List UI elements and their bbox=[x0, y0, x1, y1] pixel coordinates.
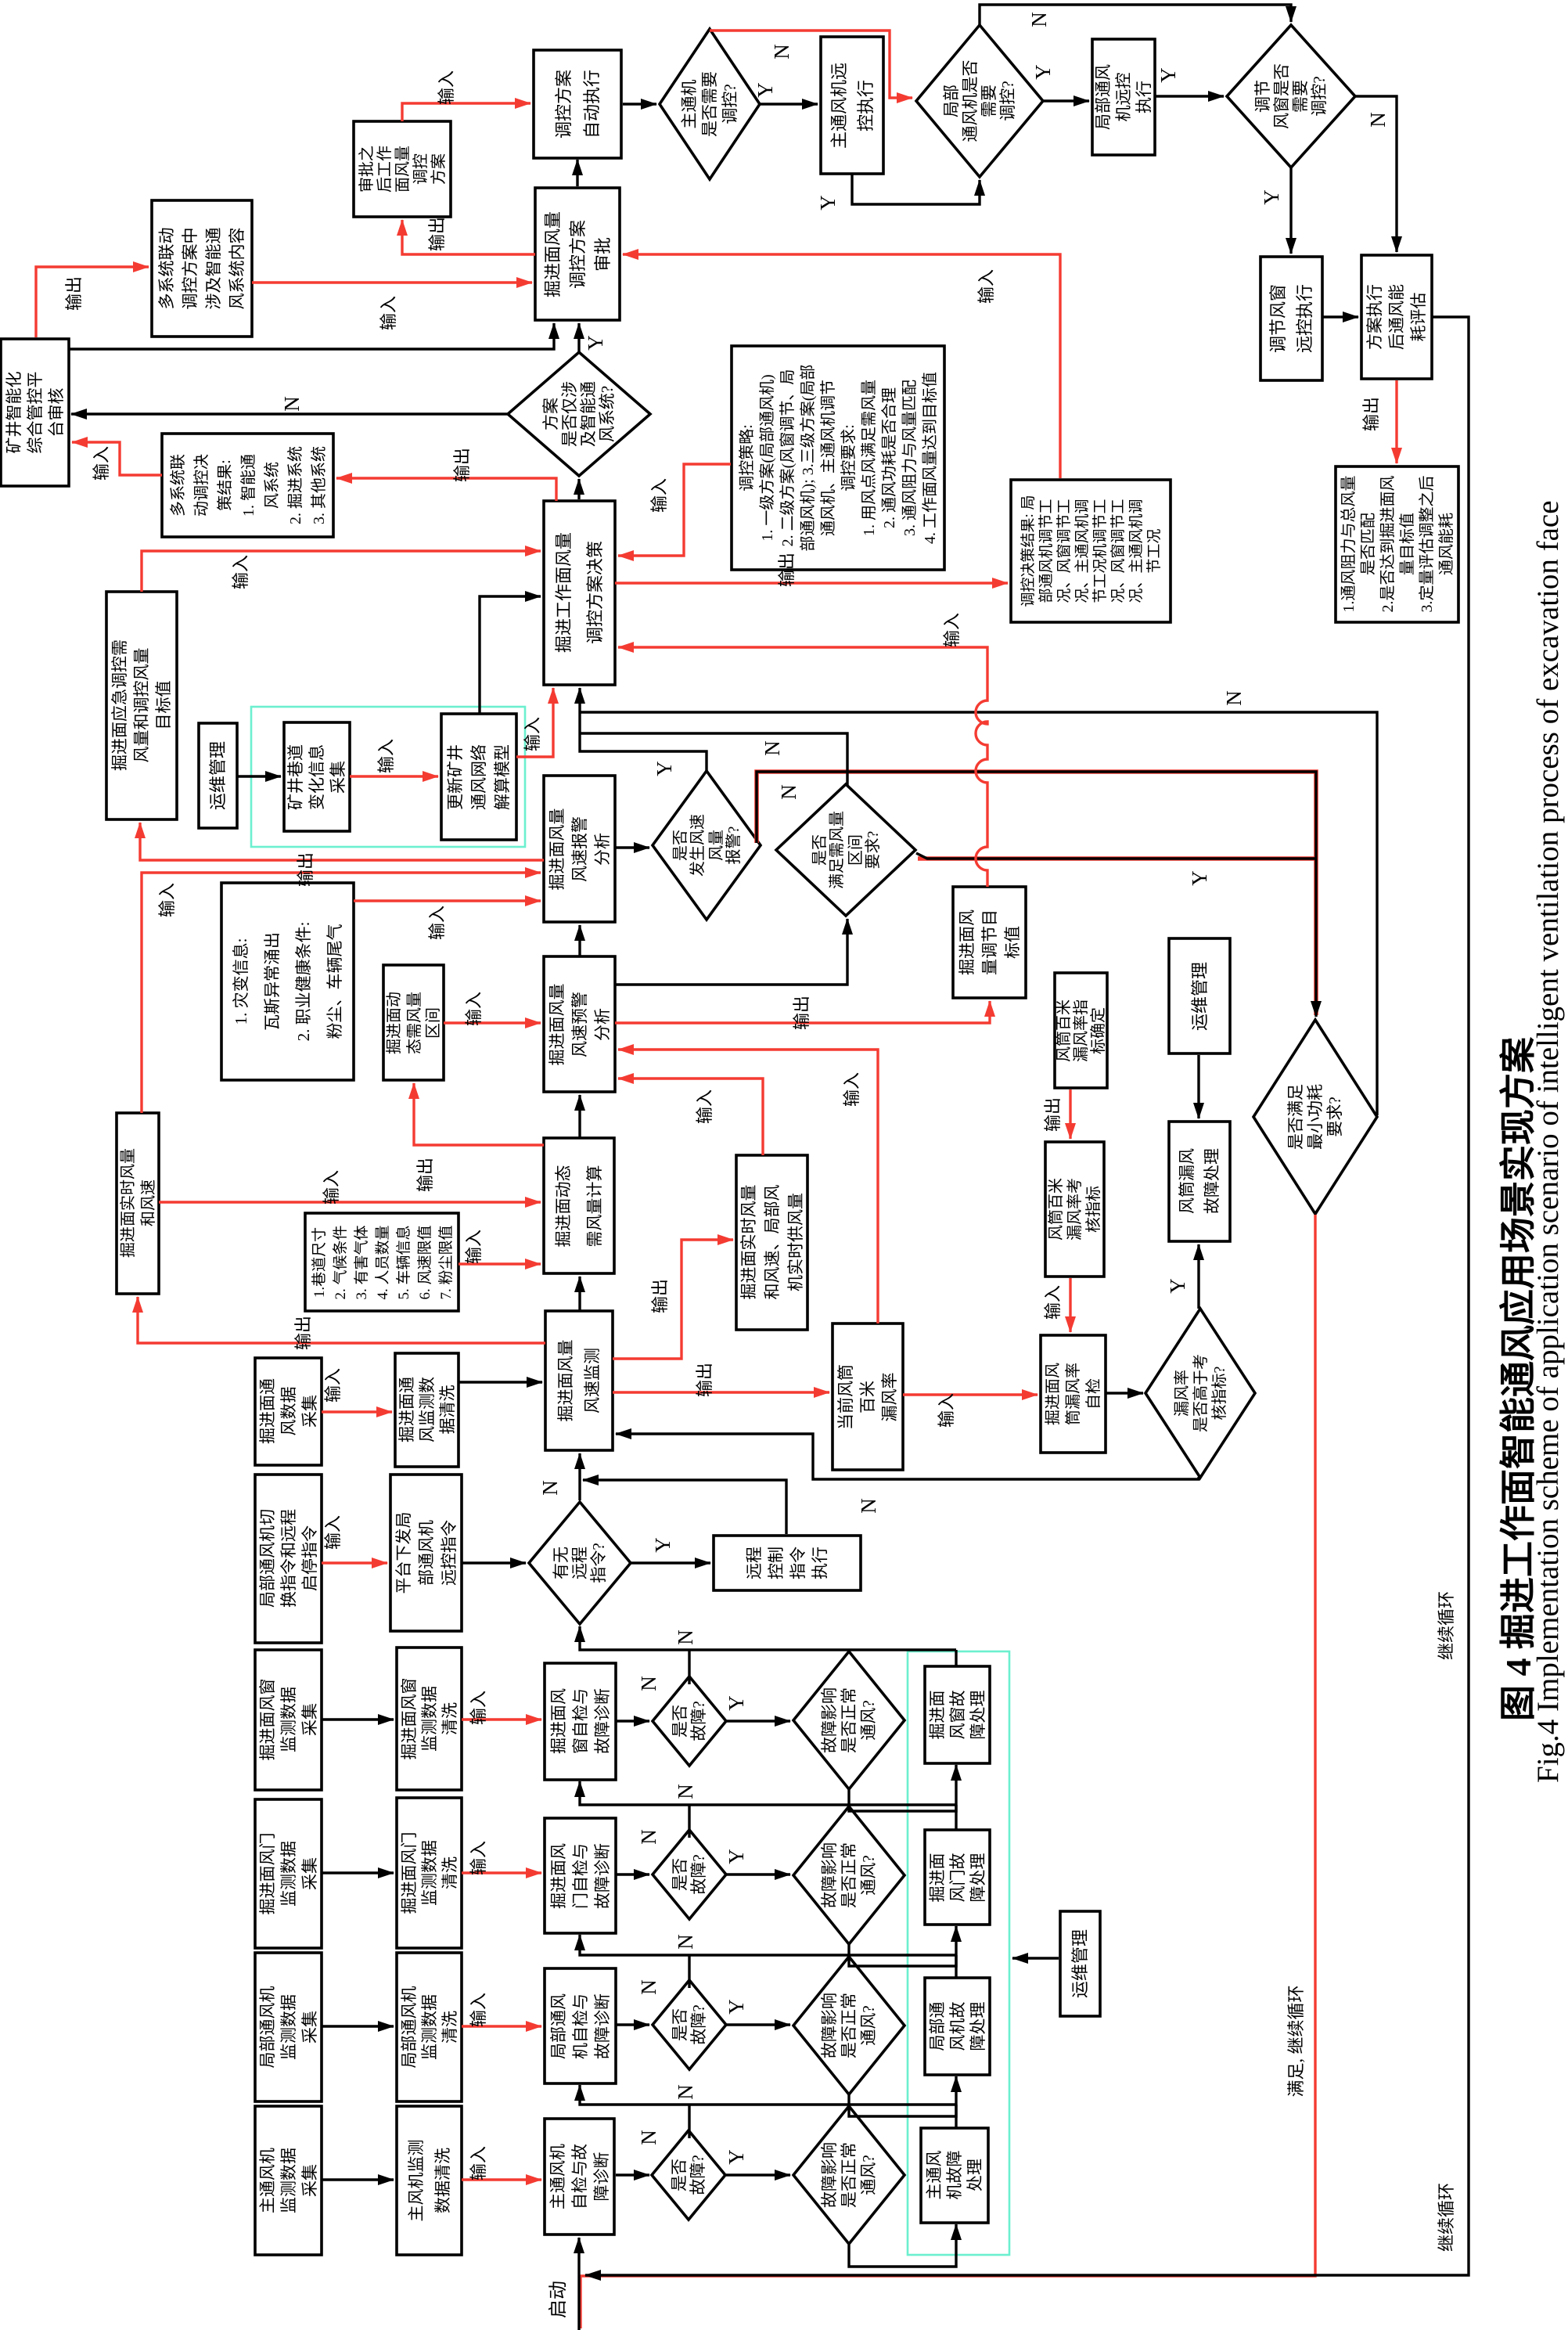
svg-text:解算模型: 解算模型 bbox=[493, 744, 512, 810]
svg-text:4. 工作面风量达到目标值: 4. 工作面风量达到目标值 bbox=[921, 372, 939, 544]
svg-text:掘进面通: 掘进面通 bbox=[397, 1377, 416, 1442]
svg-text:2. 通风功耗是否合理: 2. 通风功耗是否合理 bbox=[880, 387, 898, 528]
svg-text:运维管理: 运维管理 bbox=[1190, 962, 1210, 1031]
svg-text:况、风窗调节工: 况、风窗调节工 bbox=[1056, 499, 1073, 603]
wire 解算模型到决策底 bbox=[516, 688, 553, 757]
svg-text:掘进面动态: 掘进面动态 bbox=[554, 1165, 573, 1248]
svg-text:采集: 采集 bbox=[300, 2011, 319, 2044]
svg-text:调控方案: 调控方案 bbox=[568, 220, 588, 289]
svg-text:6. 风速限值: 6. 风速限值 bbox=[416, 1225, 433, 1299]
svg-text:输入: 输入 bbox=[469, 1691, 488, 1725]
svg-text:是否: 是否 bbox=[671, 1705, 689, 1738]
svg-text:Y: Y bbox=[1260, 189, 1283, 205]
svg-text:量目标值: 量目标值 bbox=[1398, 513, 1416, 575]
svg-text:Y: Y bbox=[1166, 1278, 1189, 1294]
svg-text:风窗是否: 风窗是否 bbox=[1272, 63, 1291, 129]
svg-text:N: N bbox=[637, 1979, 660, 1995]
wire 考核指标到自检 bbox=[1069, 1278, 1071, 1332]
svg-text:N: N bbox=[857, 1498, 880, 1514]
svg-text:输出: 输出 bbox=[296, 852, 315, 887]
decision 局部通风机是否需要调控 bbox=[916, 25, 1043, 177]
svg-text:通风能耗: 通风能耗 bbox=[1437, 513, 1455, 575]
box 局部通风机切换指令和远程启停指令 bbox=[255, 1475, 322, 1643]
box 局部通风机监测数据采集 bbox=[255, 1953, 322, 2101]
box 掘进面通风监测数据清洗 bbox=[395, 1353, 459, 1467]
svg-text:机自检与: 机自检与 bbox=[571, 1993, 590, 2059]
svg-text:控执行: 控执行 bbox=[856, 80, 876, 131]
box 风筒百米漏风率考核指标 bbox=[1045, 1142, 1104, 1277]
box 运维管理bottom bbox=[1060, 1911, 1100, 2016]
box 掘进面风窗监测数据采集 bbox=[255, 1650, 322, 1790]
svg-text:通风?: 通风? bbox=[859, 2005, 878, 2045]
svg-text:通风网络: 通风网络 bbox=[469, 744, 488, 810]
wire 处理输出上行3 bbox=[955, 1955, 957, 1978]
svg-text:Y: Y bbox=[584, 335, 607, 351]
wire 调节目标值到决策 bbox=[618, 647, 987, 887]
wire 决策到多系统决策结果 bbox=[336, 478, 556, 501]
svg-text:远控指令: 远控指令 bbox=[440, 1520, 459, 1586]
svg-text:自检与故: 自检与故 bbox=[570, 2144, 589, 2209]
wire 处理输出上行2 bbox=[955, 1805, 957, 1830]
wire 巷道采集到解算模型 bbox=[350, 775, 438, 777]
box 掘进面风量风速报警分析 bbox=[544, 776, 615, 922]
svg-text:通风?: 通风? bbox=[859, 1700, 878, 1740]
svg-text:筒漏风率: 筒漏风率 bbox=[1064, 1363, 1082, 1425]
svg-text:是否仅涉: 是否仅涉 bbox=[560, 381, 579, 447]
svg-text:是否: 是否 bbox=[811, 834, 829, 866]
svg-text:采集: 采集 bbox=[300, 2164, 319, 2197]
svg-text:机故障: 机故障 bbox=[945, 2151, 964, 2200]
svg-text:局部通风机: 局部通风机 bbox=[400, 1986, 419, 2069]
svg-text:审批之: 审批之 bbox=[358, 146, 376, 193]
box 局部通风机自检与故障诊断 bbox=[545, 1968, 616, 2083]
svg-text:多系统联: 多系统联 bbox=[169, 454, 187, 517]
wire 局部远控执行到风窗诊断 bbox=[1155, 95, 1224, 97]
svg-text:报警?: 报警? bbox=[725, 826, 743, 864]
box 审批之后工作面风量调控方案 bbox=[354, 121, 451, 217]
svg-text:输入: 输入 bbox=[523, 717, 542, 751]
svg-text:Y: Y bbox=[725, 1695, 748, 1711]
box 平台下发局部通风机远控指令 bbox=[390, 1475, 462, 1631]
svg-text:监测数据: 监测数据 bbox=[420, 1686, 439, 1752]
svg-text:风速报警: 风速报警 bbox=[570, 816, 589, 882]
svg-text:是否: 是否 bbox=[672, 830, 689, 861]
wire 局部诊断N绕顶到风窗诊断 bbox=[980, 5, 1291, 25]
svg-text:N: N bbox=[637, 1676, 660, 1691]
wire 影响N上行2 bbox=[847, 1805, 850, 1806]
svg-text:是否正常: 是否正常 bbox=[840, 2142, 858, 2208]
svg-text:输入: 输入 bbox=[92, 446, 111, 481]
svg-text:局部通: 局部通 bbox=[928, 2002, 947, 2051]
wire 清洗到自检2 bbox=[462, 1871, 541, 1874]
svg-text:变化信息: 变化信息 bbox=[307, 744, 326, 810]
wire 风量风速监测到动态计算 bbox=[578, 1277, 581, 1311]
svg-text:掘进面风量: 掘进面风量 bbox=[548, 984, 566, 1066]
svg-text:输入: 输入 bbox=[322, 1170, 341, 1205]
svg-text:机远控: 机远控 bbox=[1114, 73, 1133, 122]
wire 主通机Y到主通风机远控执行 bbox=[760, 103, 818, 105]
wire 监测到实时风量 bbox=[138, 1297, 545, 1343]
svg-text:漏风率指: 漏风率指 bbox=[1072, 999, 1090, 1062]
svg-text:Y: Y bbox=[653, 761, 676, 776]
wire 调控策略到决策 bbox=[618, 464, 731, 556]
svg-text:继续循环: 继续循环 bbox=[1437, 2183, 1456, 2252]
svg-text:区间: 区间 bbox=[424, 1007, 442, 1039]
decision 故障影响是否正常通风4 bbox=[793, 2106, 904, 2244]
wire 影响Y到处理2 bbox=[849, 1926, 956, 1966]
svg-text:调控方案: 调控方案 bbox=[554, 70, 574, 139]
svg-text:输出: 输出 bbox=[293, 1316, 313, 1350]
svg-text:2. 二级方案(风窗调节、局: 2. 二级方案(风窗调节、局 bbox=[779, 369, 797, 547]
svg-text:输出: 输出 bbox=[695, 1363, 714, 1397]
svg-text:输入: 输入 bbox=[437, 70, 456, 105]
svg-text:核指标?: 核指标? bbox=[1210, 1366, 1228, 1420]
svg-text:N: N bbox=[280, 396, 304, 412]
svg-text:输出: 输出 bbox=[427, 217, 447, 251]
decision 漏风率是否高于考核指标 bbox=[1145, 1309, 1255, 1478]
svg-text:有无: 有无 bbox=[552, 1547, 570, 1579]
wire 是否故障N上行1 bbox=[688, 1650, 690, 1684]
svg-text:N: N bbox=[674, 1784, 697, 1799]
svg-text:节工况机调节工: 节工况机调节工 bbox=[1091, 499, 1109, 603]
svg-text:满足需风量: 满足需风量 bbox=[828, 811, 846, 889]
wire 清洗到自检3 bbox=[462, 2025, 541, 2027]
svg-text:输入: 输入 bbox=[842, 1072, 861, 1107]
svg-text:和风速、局部风: 和风速、局部风 bbox=[763, 1185, 782, 1300]
svg-text:运维管理: 运维管理 bbox=[208, 741, 228, 810]
svg-text:掘进面实时风量: 掘进面实时风量 bbox=[119, 1148, 137, 1258]
wire 清洗到自检1 bbox=[462, 1718, 541, 1720]
svg-text:输入: 输入 bbox=[937, 1393, 956, 1428]
svg-text:N: N bbox=[770, 44, 793, 59]
svg-text:Y: Y bbox=[1188, 870, 1211, 886]
wire 区间Y红色伴线 bbox=[918, 856, 1316, 861]
svg-text:态需风量: 态需风量 bbox=[405, 992, 423, 1054]
wire 是否故障N上行2 bbox=[688, 1805, 690, 1838]
svg-text:风系统内容: 风系统内容 bbox=[228, 228, 246, 310]
svg-text:N: N bbox=[674, 2084, 697, 2100]
wire 是否故障Y到影响1 bbox=[726, 1720, 790, 1722]
wire 主通机N到局部诊断 bbox=[710, 31, 912, 98]
svg-text:调节风窗: 调节风窗 bbox=[1268, 284, 1288, 353]
svg-text:输出: 输出 bbox=[792, 996, 811, 1030]
wire 是否故障Y到影响2 bbox=[726, 1873, 790, 1875]
svg-text:监测数据: 监测数据 bbox=[279, 1841, 298, 1907]
svg-text:部通风机); 3.三级方案(局部: 部通风机); 3.三级方案(局部 bbox=[799, 365, 817, 552]
svg-text:风窗故: 风窗故 bbox=[948, 1691, 967, 1740]
wire 影响Y到处理3 bbox=[849, 2076, 956, 2116]
svg-text:监测数据: 监测数据 bbox=[279, 1687, 298, 1752]
svg-text:部通风机: 部通风机 bbox=[417, 1520, 436, 1586]
svg-text:采集: 采集 bbox=[300, 1703, 319, 1736]
svg-text:采集: 采集 bbox=[300, 1395, 319, 1428]
svg-text:故障诊断: 故障诊断 bbox=[593, 1843, 612, 1909]
decision 是否满足需风量区间要求 bbox=[776, 784, 915, 916]
svg-text:障处理: 障处理 bbox=[969, 1691, 987, 1740]
wire 方案诊断Y到审批 bbox=[577, 323, 580, 352]
svg-text:输入: 输入 bbox=[323, 1368, 343, 1403]
decision 故障影响是否正常通风3 bbox=[793, 1957, 904, 2094]
decision 是否发生风速风量报警 bbox=[653, 771, 761, 920]
svg-text:通风?: 通风? bbox=[859, 2155, 878, 2195]
svg-text:输入: 输入 bbox=[379, 296, 398, 330]
svg-text:清洗: 清洗 bbox=[441, 1702, 459, 1735]
box 方案执行后通风能耗评估 bbox=[1361, 255, 1432, 379]
svg-text:继续循环: 继续循环 bbox=[1437, 1591, 1456, 1660]
svg-text:Y: Y bbox=[725, 1999, 748, 2015]
svg-text:面风量: 面风量 bbox=[394, 146, 412, 193]
wire 功耗N回决策 bbox=[580, 712, 1377, 1115]
svg-text:主通机: 主通机 bbox=[680, 80, 699, 129]
svg-text:漏风率考: 漏风率考 bbox=[1066, 1178, 1084, 1241]
svg-text:门自检与: 门自检与 bbox=[571, 1843, 590, 1909]
svg-text:1. 灾变信息:: 1. 灾变信息: bbox=[232, 938, 250, 1025]
svg-text:调控方案中: 调控方案中 bbox=[181, 228, 200, 310]
svg-text:故障?: 故障? bbox=[689, 2155, 707, 2195]
svg-text:方案: 方案 bbox=[541, 398, 560, 430]
svg-text:输入: 输入 bbox=[231, 555, 250, 589]
svg-text:主通风机: 主通风机 bbox=[258, 2148, 277, 2213]
svg-text:审批: 审批 bbox=[593, 237, 613, 272]
svg-text:风筒百米: 风筒百米 bbox=[1047, 1178, 1065, 1241]
svg-text:输出: 输出 bbox=[452, 448, 472, 482]
svg-text:Fig.4 Implementation scheme: Fig.4 Implementation scheme of applicati… bbox=[1531, 500, 1565, 1783]
svg-text:N: N bbox=[1027, 12, 1051, 27]
svg-text:当前风筒: 当前风筒 bbox=[836, 1364, 855, 1430]
svg-text:2. 气候条件: 2. 气候条件 bbox=[332, 1225, 349, 1299]
svg-text:1.通风阻力与总风量: 1.通风阻力与总风量 bbox=[1340, 476, 1358, 613]
wire 区间N汇入决策竖线 bbox=[580, 733, 847, 786]
box 主风机监测数据清洗 bbox=[397, 2106, 462, 2255]
decision 是否故障3 bbox=[653, 1980, 726, 2069]
svg-text:况、风窗调节工: 况、风窗调节工 bbox=[1109, 499, 1127, 603]
wire 预警分析到报警分析 bbox=[578, 925, 581, 956]
wire 漏风率自检到诊断 bbox=[1106, 1392, 1143, 1394]
box 局部通风机远控执行 bbox=[1092, 39, 1155, 155]
wire 巷道尺寸到动态计算 bbox=[459, 1262, 541, 1265]
wire 自动执行到主通机诊断 bbox=[623, 103, 656, 105]
svg-text:输入: 输入 bbox=[649, 478, 669, 513]
decision 是否故障2 bbox=[653, 1830, 726, 1919]
wire 自检到是否故障1 bbox=[616, 1720, 649, 1722]
wire 影响N上行3 bbox=[847, 1955, 850, 1956]
wire 当前漏风率到预警分析 bbox=[618, 1050, 878, 1323]
wire 平台审核到审批 bbox=[68, 323, 554, 349]
wire 实时风量到动态计算 bbox=[159, 1201, 541, 1203]
svg-text:3.定量评估调整之后: 3.定量评估调整之后 bbox=[1418, 476, 1436, 613]
decision 调节风窗是否需要调控 bbox=[1227, 25, 1355, 167]
wire 远程指令Y到执行 bbox=[631, 1561, 710, 1564]
svg-text:是否正常: 是否正常 bbox=[840, 1842, 858, 1908]
svg-text:1. 一级方案(局部通风机): 1. 一级方案(局部通风机) bbox=[758, 374, 776, 541]
svg-text:监测数据: 监测数据 bbox=[279, 2148, 298, 2213]
wire 是否故障N上行3 bbox=[688, 1955, 690, 1988]
svg-text:障处理: 障处理 bbox=[969, 2002, 987, 2051]
svg-text:数据清洗: 数据清洗 bbox=[433, 2148, 452, 2213]
wire 自检到是否故障2 bbox=[616, 1873, 649, 1875]
box 掘进面风量风速预警分析 bbox=[544, 956, 615, 1092]
wire 解算模型到决策左 bbox=[480, 596, 541, 714]
svg-text:输入: 输入 bbox=[464, 1230, 484, 1264]
wire 应急目标值到决策 bbox=[142, 551, 541, 592]
svg-text:调控要求:: 调控要求: bbox=[840, 424, 858, 492]
svg-text:通风?: 通风? bbox=[859, 1855, 878, 1895]
container cyan update-model group bbox=[251, 707, 525, 847]
svg-text:掘进工作面风量: 掘进工作面风量 bbox=[554, 532, 574, 653]
box 主通风机自检与故障诊断 bbox=[545, 2119, 614, 2235]
svg-text:矿井智能化: 矿井智能化 bbox=[5, 372, 23, 454]
decision 是否满足最小功耗要求 bbox=[1253, 1020, 1377, 1214]
wire 运维到故障处理组 bbox=[1012, 1957, 1059, 1959]
box 掘进面风门监测数据清洗 bbox=[397, 1798, 462, 1948]
svg-text:输入: 输入 bbox=[1043, 1285, 1063, 1320]
svg-text:分析: 分析 bbox=[593, 1008, 612, 1041]
svg-text:漏风率: 漏风率 bbox=[1173, 1370, 1191, 1417]
svg-text:输入: 输入 bbox=[376, 739, 396, 773]
svg-text:风筒漏风: 风筒漏风 bbox=[1178, 1148, 1196, 1214]
svg-text:N: N bbox=[674, 1934, 697, 1950]
wire 风窗诊断Y到调节风窗远控 bbox=[1289, 167, 1292, 254]
wire 采集到清洗3 bbox=[322, 2025, 394, 2027]
svg-text:发生风速: 发生风速 bbox=[689, 814, 707, 877]
svg-text:掘进面风窗: 掘进面风窗 bbox=[258, 1679, 277, 1761]
svg-text:风速预警: 风速预警 bbox=[570, 992, 589, 1057]
svg-text:3. 其他系统: 3. 其他系统 bbox=[310, 446, 328, 524]
svg-text:输入: 输入 bbox=[942, 613, 962, 647]
box 运维管理mid bbox=[1169, 938, 1230, 1053]
box 掘进面动态需风量区间 bbox=[383, 965, 444, 1080]
svg-text:需要: 需要 bbox=[1291, 80, 1310, 113]
svg-text:故障?: 故障? bbox=[689, 1854, 708, 1894]
box 掘进面风筒漏风率自检 bbox=[1041, 1335, 1106, 1453]
svg-text:故障?: 故障? bbox=[689, 1701, 708, 1741]
box 掘进面实时风量和风速 bbox=[117, 1113, 159, 1294]
wire 报警分析到应急目标值 bbox=[140, 823, 544, 860]
svg-text:掘进面风门: 掘进面风门 bbox=[258, 1833, 277, 1915]
svg-text:清洗: 清洗 bbox=[441, 2011, 459, 2044]
svg-text:主风机监测: 主风机监测 bbox=[407, 2140, 426, 2222]
svg-text:是否需要: 是否需要 bbox=[700, 71, 719, 137]
wire 实时供风量到预警分析 bbox=[618, 1079, 763, 1155]
box 风筒漏风故障处理 bbox=[1169, 1122, 1230, 1241]
svg-text:远程: 远程 bbox=[745, 1547, 764, 1579]
box 调控决策结果 bbox=[1011, 480, 1171, 622]
svg-text:输入: 输入 bbox=[464, 992, 484, 1026]
wire 漏风率Y到风筒漏风处理 bbox=[1197, 1244, 1199, 1309]
svg-text:输入: 输入 bbox=[976, 269, 996, 304]
svg-text:掘进面通: 掘进面通 bbox=[258, 1378, 277, 1444]
svg-text:部通风机调节工: 部通风机调节工 bbox=[1038, 499, 1055, 603]
svg-text:及智能通: 及智能通 bbox=[579, 381, 598, 447]
svg-text:调控?: 调控? bbox=[721, 84, 739, 124]
svg-text:启停指令: 启停指令 bbox=[300, 1525, 319, 1591]
svg-text:通风机是否: 通风机是否 bbox=[961, 60, 980, 142]
svg-text:2. 职业健康条件:: 2. 职业健康条件: bbox=[294, 922, 313, 1042]
svg-text:Y: Y bbox=[753, 82, 777, 98]
svg-text:最小功耗: 最小功耗 bbox=[1306, 1084, 1325, 1150]
wire 运维到巷道采集 bbox=[237, 775, 281, 777]
svg-text:是否正常: 是否正常 bbox=[840, 1687, 858, 1753]
wire 采集到清洗2 bbox=[322, 1871, 394, 1874]
svg-text:N: N bbox=[637, 1829, 660, 1845]
svg-text:故障?: 故障? bbox=[689, 2004, 708, 2044]
svg-text:是否: 是否 bbox=[670, 2159, 689, 2191]
wire 实时风量到报警分析 bbox=[142, 873, 541, 1113]
svg-text:掘进面: 掘进面 bbox=[928, 1853, 947, 1903]
box 矿井巷道变化信息采集 bbox=[284, 722, 350, 831]
decision 有无远程指令 bbox=[529, 1502, 631, 1624]
svg-text:要求?: 要求? bbox=[864, 830, 882, 869]
svg-text:风数据: 风数据 bbox=[279, 1387, 298, 1436]
svg-text:故障处理: 故障处理 bbox=[1203, 1148, 1221, 1214]
svg-text:窗自检与: 窗自检与 bbox=[571, 1688, 590, 1754]
svg-text:方案: 方案 bbox=[430, 153, 448, 185]
svg-text:掘进面风门: 掘进面风门 bbox=[400, 1832, 419, 1914]
wire 局部诊断Y到局部远控执行 bbox=[1043, 99, 1089, 102]
svg-text:清洗: 清洗 bbox=[441, 1856, 459, 1889]
svg-text:台审核: 台审核 bbox=[47, 388, 66, 438]
wire 通风采集到通风清洗 bbox=[322, 1410, 392, 1413]
box 掘进面风门故障处理 bbox=[925, 1830, 990, 1925]
svg-text:输入: 输入 bbox=[427, 906, 447, 940]
wire 处理输出上行4 bbox=[955, 2105, 957, 2128]
svg-text:需要: 需要 bbox=[980, 85, 998, 117]
svg-text:机实时供风量: 机实时供风量 bbox=[786, 1193, 805, 1291]
svg-text:节工况: 节工况 bbox=[1145, 528, 1163, 573]
box 主通风机故障处理 bbox=[921, 2128, 988, 2223]
svg-text:后通风能: 后通风能 bbox=[1387, 284, 1406, 350]
svg-text:自动执行: 自动执行 bbox=[582, 70, 602, 139]
box 掘进面风门监测数据采集 bbox=[255, 1799, 322, 1948]
wire 采集到清洗1 bbox=[322, 1718, 394, 1720]
svg-text:区间: 区间 bbox=[847, 834, 865, 866]
svg-text:N: N bbox=[1222, 690, 1246, 706]
svg-text:风量和调控风量: 风量和调控风量 bbox=[132, 648, 151, 763]
svg-text:调控: 调控 bbox=[412, 153, 430, 185]
svg-text:矿井巷道: 矿井巷道 bbox=[286, 744, 305, 810]
wire 是否故障Y到影响3 bbox=[726, 2023, 790, 2026]
svg-text:掘进面动: 掘进面动 bbox=[385, 992, 403, 1054]
svg-text:运维管理: 运维管理 bbox=[1070, 1929, 1090, 1998]
box 掘进面实时风量和风速局部风机实时供风量 bbox=[736, 1155, 807, 1330]
svg-text:障诊断: 障诊断 bbox=[592, 2152, 611, 2202]
svg-text:是否满足: 是否满足 bbox=[1286, 1084, 1305, 1150]
wire 运维到风筒漏风处理 bbox=[1197, 1055, 1199, 1118]
svg-text:局部: 局部 bbox=[942, 85, 961, 117]
wire 决策到方案诊断 bbox=[577, 479, 580, 499]
box 远程控制指令执行 bbox=[714, 1536, 861, 1590]
svg-text:5. 车辆信息: 5. 车辆信息 bbox=[395, 1225, 412, 1299]
svg-text:风量: 风量 bbox=[708, 830, 725, 861]
svg-text:1. 用风点风满足需风量: 1. 用风点风满足需风量 bbox=[860, 380, 878, 536]
wire 监测到当前漏风率 bbox=[613, 1391, 829, 1393]
svg-text:掘进面风: 掘进面风 bbox=[1044, 1363, 1062, 1425]
svg-text:涉及智能通: 涉及智能通 bbox=[204, 228, 223, 310]
svg-text:调控?: 调控? bbox=[998, 81, 1017, 121]
wire 灾变信息到报警分析 bbox=[354, 899, 541, 902]
svg-text:输出: 输出 bbox=[650, 1279, 670, 1313]
svg-text:瓦斯异常涌出: 瓦斯异常涌出 bbox=[263, 932, 282, 1031]
svg-text:漏风率: 漏风率 bbox=[880, 1373, 899, 1422]
svg-text:输入: 输入 bbox=[157, 883, 177, 917]
svg-text:监测数据: 监测数据 bbox=[279, 1994, 298, 2060]
wire 影响N上行1 bbox=[847, 1650, 850, 1652]
svg-text:故障诊断: 故障诊断 bbox=[593, 1993, 612, 2059]
svg-text:策结果:: 策结果: bbox=[216, 459, 234, 511]
svg-text:Y: Y bbox=[816, 195, 840, 211]
svg-text:风速监测: 风速监测 bbox=[583, 1348, 602, 1413]
wire 多系统决策结果到平台审核 bbox=[72, 442, 162, 475]
